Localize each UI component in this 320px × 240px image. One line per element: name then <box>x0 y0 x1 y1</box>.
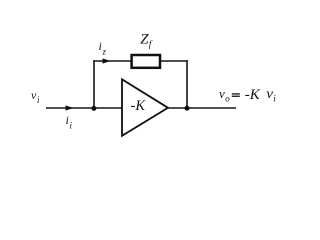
svg-text:i: i <box>66 113 69 127</box>
svg-text:v: v <box>219 86 225 101</box>
svg-text:-K: -K <box>245 87 261 103</box>
svg-text:v: v <box>266 86 273 101</box>
svg-text:-K: -K <box>131 98 147 114</box>
svg-text:z: z <box>102 47 107 57</box>
svg-text:o: o <box>225 94 230 104</box>
svg-text:i: i <box>99 39 102 53</box>
